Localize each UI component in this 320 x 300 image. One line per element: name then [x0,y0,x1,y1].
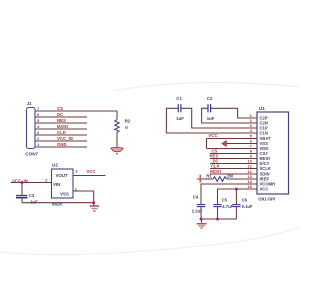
wire C3 bottom lead [21,198,23,203]
ground port arrow (VSS pin6) [222,141,227,147]
wire net RES (U1) [210,158,257,160]
connector J1 [27,108,36,149]
wire C5 bottom lead [217,207,219,219]
wire ground rail under U2 [22,202,94,204]
svg-text:1uF: 1uF [176,116,184,121]
wire pin15 VCC to C5 [218,189,258,204]
wire ground to R1 [202,178,214,180]
junction C4 rail [200,218,203,221]
wire net GND [43,146,88,148]
regulator U2 [52,169,74,198]
wire VCC to VBAT pin5 [207,138,258,140]
wire VCC_IN to U2 VIN [11,182,52,184]
svg-text:C2: C2 [207,96,213,101]
svg-text:C1: C1 [176,96,182,101]
wire C6 top lead [235,189,237,204]
svg-text:2.2uF: 2.2uF [192,209,203,214]
wire C2 left to pin2 [202,108,257,123]
ground (caps) [197,223,207,225]
wire C1 right to pin3 [181,108,257,128]
J1 pin 6 stub [35,116,43,118]
svg-text:VCC_IN: VCC_IN [57,136,73,141]
svg-text:1uF: 1uF [207,116,215,121]
junction C5 rail [216,218,219,221]
wire net CLK (U1) [210,168,257,170]
resistor R2 [115,120,119,133]
svg-text:C6: C6 [242,198,248,203]
wire net CS (U1) [210,153,257,155]
wire net CLK [43,134,88,136]
svg-text:C3: C3 [29,193,35,198]
svg-text:R1: R1 [206,173,212,178]
svg-text:CLK: CLK [57,130,67,135]
wire R1 to pin13 [227,178,257,180]
capacitor C3 [16,194,28,196]
wire cap ground rail [201,218,236,220]
svg-text:DC: DC [57,112,63,117]
wire pin14 VCOMH to C4 [201,184,257,204]
wire C6 bottom lead [235,207,237,219]
J1 pin 3 stub [35,134,43,136]
wire pin6 [226,143,257,145]
svg-text:15: 15 [247,184,252,189]
svg-text:C1N: C1N [260,131,268,136]
wire R2 to ground [116,133,118,148]
svg-text:U1: U1 [259,106,265,111]
svg-text:662K: 662K [52,202,63,207]
capacitor C2 [207,104,209,112]
svg-text:O91-SPI: O91-SPI [258,196,275,201]
wire VCC to VDD pin7 [207,148,258,150]
wire net RES [43,122,88,124]
wire net DC (U1) [210,163,257,165]
wire VBAT-VDD vertical [206,139,208,149]
capacitor C6 [232,204,240,206]
IC U1 [257,112,289,194]
J1 pin 5 stub [35,122,43,124]
svg-text:VOUT: VOUT [56,173,69,178]
svg-text:4.7uF: 4.7uF [222,204,233,209]
J1 pin 2 stub [35,140,43,142]
wire net MOSI (U1) [210,173,257,175]
svg-text:SCLK: SCLK [260,166,271,171]
wire net VCC_IN [43,140,88,142]
svg-text:J1: J1 [27,101,33,106]
svg-text:U2: U2 [52,163,58,168]
svg-text:C4: C4 [193,194,199,199]
svg-text:R2: R2 [125,119,131,124]
svg-text:CON7: CON7 [25,152,38,157]
svg-text:CS: CS [57,106,63,111]
resistor R1 [213,177,227,182]
junction U2 ground [92,201,95,204]
wire net DC [43,116,88,118]
wire net MOSI [43,128,88,130]
wire net CS [43,110,118,112]
wire CS to R2 [116,111,118,120]
capacitor C5 [213,204,221,206]
junction VCC_IN/C3 [21,181,24,184]
junction VCC/C6 [235,188,238,191]
svg-text:VCC: VCC [209,133,218,138]
capacitor C1 [177,104,179,112]
svg-text:0.1uF: 0.1uF [242,204,253,209]
svg-text:MOSI: MOSI [210,169,221,174]
svg-text:CLK: CLK [211,164,220,169]
J1 pin 1 stub [35,146,43,148]
J1 pin 7 stub [35,110,43,112]
svg-text:RES: RES [57,118,66,123]
svg-text:2M: 2M [227,174,233,179]
svg-text:C5: C5 [222,198,228,203]
wire C3 top lead [21,183,23,196]
svg-text:VIN: VIN [53,182,60,187]
wire U2 VOUT to VCC [73,175,106,177]
svg-text:GND: GND [57,142,67,147]
J1 pin 4 stub [35,128,43,130]
svg-text:1uF: 1uF [30,200,38,205]
ground (U2) [90,205,100,207]
wire ground stem [201,219,203,223]
capacitor C4 [197,204,205,206]
wire U2 VSS to ground [73,191,94,203]
wire C1 left to pin4 [166,108,257,133]
ground (R2) [111,148,123,152]
wire C4 bottom lead [200,207,202,219]
ground port (R1 left) [197,178,202,180]
svg-text:VSS: VSS [60,191,69,196]
svg-text:VCC: VCC [87,169,96,174]
svg-text:VCC: VCC [260,187,269,192]
svg-text:MOSI: MOSI [57,124,68,129]
wire C2 right to pin1 [211,108,257,118]
